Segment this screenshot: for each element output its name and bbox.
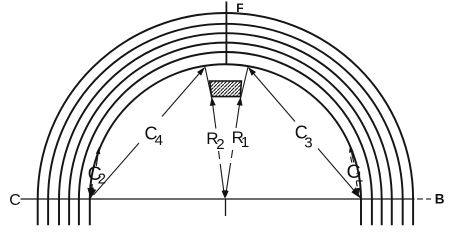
keystone right side line: [240, 67, 248, 99]
svg-text:3: 3: [304, 135, 312, 152]
label C4: [145, 123, 163, 149]
label R2: [206, 129, 224, 153]
svg-text:F: F: [236, 1, 243, 15]
label C3: [295, 122, 313, 151]
vertical centre line F: [225, 2, 227, 65]
svg-text:C: C: [9, 192, 21, 209]
arc 4: [59, 33, 392, 225]
label C1: [347, 161, 364, 185]
label R1: [232, 128, 250, 151]
arc 3: [69, 43, 382, 226]
svg-text:B: B: [435, 192, 445, 207]
chord line C3: [248, 67, 361, 199]
chord arrow C1 (down, dashed): [356, 182, 360, 195]
keystone (hatched voussoir): [210, 81, 242, 97]
radius line R1: [224, 97, 242, 199]
chord line C4: [87, 67, 205, 199]
arc 6 (outermost ring): [38, 13, 413, 225]
center tick below baseline: [225, 199, 227, 216]
label C2: [88, 163, 106, 188]
svg-text:1: 1: [355, 169, 363, 186]
arc 2: [79, 52, 372, 225]
chord arrow C2 (up): [96, 147, 101, 166]
baseline C-B: [21, 198, 432, 200]
radius line R2: [210, 97, 226, 199]
svg-text:4: 4: [155, 132, 163, 149]
chord arrow C2 (down, dashed): [90, 184, 94, 194]
arc 1 (innermost ring): [90, 64, 361, 225]
svg-text:2: 2: [216, 136, 224, 153]
keystone left side line: [205, 67, 212, 99]
arc 5: [48, 24, 403, 225]
svg-text:2: 2: [98, 170, 106, 187]
chord arrow C1 (up): [349, 146, 354, 163]
svg-text:1: 1: [241, 134, 249, 151]
